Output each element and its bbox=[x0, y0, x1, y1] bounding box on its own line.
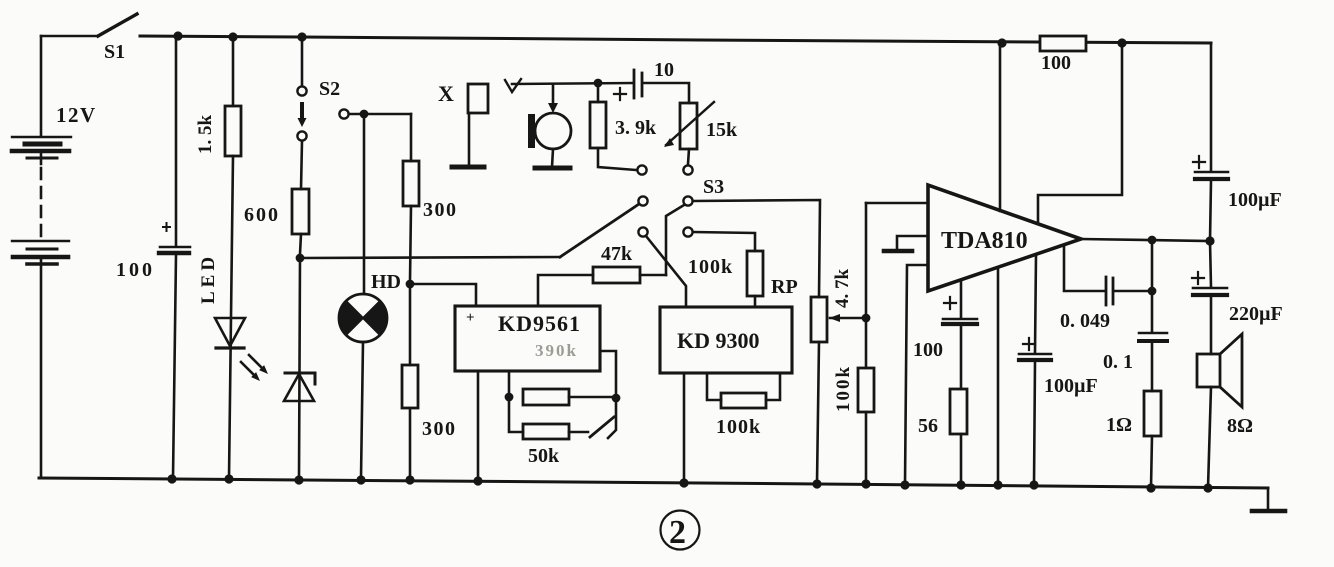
node junction bottom rail R14 bbox=[956, 480, 965, 489]
wire C2 to R6 bbox=[644, 83, 689, 103]
svg-text:100: 100 bbox=[913, 339, 943, 361]
switch S3 contact 3b bbox=[683, 227, 692, 236]
resistor R8 50k bbox=[523, 389, 569, 405]
node junction bottom rail R11 bbox=[812, 479, 821, 488]
zener diode D2 bbox=[285, 373, 315, 384]
node junction bottom rail LED bbox=[224, 474, 233, 483]
svg-text:100µF: 100µF bbox=[1044, 375, 1098, 397]
KD9561 osc pin bbox=[508, 371, 511, 397]
resistor R9 50k switched bbox=[509, 397, 523, 432]
node mic junction bbox=[594, 79, 603, 88]
TDA ground pin bbox=[997, 268, 1000, 485]
svg-text:100: 100 bbox=[116, 259, 155, 281]
node 50k right bbox=[612, 394, 621, 403]
svg-text:600: 600 bbox=[244, 204, 280, 226]
svg-text:100k: 100k bbox=[833, 365, 854, 412]
switch S1 bbox=[98, 14, 137, 36]
switch S3 contact 2b bbox=[683, 196, 692, 205]
node junction bottom rail R12 bbox=[861, 479, 870, 488]
svg-text:300: 300 bbox=[423, 199, 458, 221]
node junction bottom rail zener bbox=[294, 475, 303, 484]
resistor R10 100k loop bbox=[707, 373, 721, 400]
svg-text:47k: 47k bbox=[601, 243, 633, 265]
resistor R5 3.9k bbox=[597, 83, 600, 102]
svg-text:10: 10 bbox=[654, 59, 674, 81]
node junction bottom rail speaker bbox=[1203, 483, 1212, 492]
switch S2 bbox=[301, 37, 304, 86]
capacitor C5 0.049 bbox=[1064, 246, 1104, 291]
svg-text:1. 5k: 1. 5k bbox=[195, 115, 216, 155]
node 50k left bbox=[505, 393, 514, 402]
svg-text:100k: 100k bbox=[716, 416, 761, 438]
capacitor C4 100uF bbox=[1035, 255, 1036, 352]
svg-text:KD9561: KD9561 bbox=[498, 311, 581, 336]
potentiometer R11 4.7k bbox=[811, 297, 827, 342]
node junction top rail C1 bbox=[173, 31, 182, 40]
KD9300 ground pin bbox=[683, 373, 686, 483]
svg-text:4. 7k: 4. 7k bbox=[832, 269, 853, 309]
LED D1 bbox=[215, 318, 245, 346]
node wiper bbox=[862, 314, 871, 323]
op-amp U3 TDA810 bbox=[928, 185, 1081, 291]
resistor R3 300 bbox=[410, 114, 413, 161]
svg-text:0. 1: 0. 1 bbox=[1103, 351, 1133, 373]
wire output bbox=[1081, 239, 1210, 241]
wire bootstrap step bbox=[1038, 43, 1122, 224]
node 300 junction bbox=[406, 280, 415, 289]
speaker SP 8ohm bbox=[1197, 354, 1220, 387]
svg-text:S2: S2 bbox=[319, 78, 340, 100]
switch S3 blade2 bbox=[646, 236, 686, 307]
node junction bottom rail C4 bbox=[1029, 480, 1038, 489]
resistor R13 100 bbox=[1040, 36, 1086, 51]
svg-text:1Ω: 1Ω bbox=[1106, 414, 1132, 436]
svg-text:300: 300 bbox=[422, 418, 457, 440]
node junction bottom rail HD bbox=[356, 475, 365, 484]
node HD junction bbox=[360, 110, 369, 119]
IC U1 KD9561 bbox=[455, 306, 600, 371]
capacitor C3 100 bbox=[960, 281, 963, 317]
IC U2 KD9300 bbox=[660, 307, 792, 373]
S2 right contact bbox=[339, 109, 348, 118]
resistor R7 47k bbox=[593, 267, 640, 283]
node output bbox=[1148, 236, 1157, 245]
capacitor C6 0.1 bbox=[1151, 243, 1154, 332]
microphone BM bbox=[505, 79, 521, 92]
TDA V+ pin bbox=[999, 43, 1002, 211]
node junction bottom rail U1 bbox=[473, 476, 482, 485]
node junction bottom rail U2 bbox=[679, 478, 688, 487]
svg-text:3. 9k: 3. 9k bbox=[615, 117, 657, 139]
wire top rail left bbox=[41, 35, 98, 38]
node main selector wire bbox=[296, 254, 305, 263]
wire bottom rail bbox=[39, 478, 1268, 488]
svg-text:100µF: 100µF bbox=[1228, 189, 1282, 211]
resistor RP 100k bbox=[747, 251, 763, 296]
wire to TDA input bbox=[866, 202, 928, 205]
svg-text:50k: 50k bbox=[528, 445, 560, 467]
input tab symbol bbox=[897, 236, 928, 249]
capacitor C7 100uF bbox=[1210, 43, 1213, 170]
resistor R12 100k bbox=[865, 203, 868, 368]
capacitor C8 220uF bbox=[1210, 241, 1211, 287]
resistor R15 1ohm bbox=[1144, 391, 1161, 436]
svg-text:0. 049: 0. 049 bbox=[1060, 310, 1110, 332]
wire selector bbox=[300, 257, 560, 258]
node output right bbox=[1205, 236, 1214, 245]
figure number 2 bbox=[661, 511, 700, 550]
ground bbox=[1267, 488, 1270, 510]
svg-text:56: 56 bbox=[918, 415, 938, 437]
svg-text:RP: RP bbox=[771, 276, 798, 298]
svg-text:12V: 12V bbox=[56, 103, 97, 127]
resistor R14 56 bbox=[950, 389, 967, 434]
switch blade 50k bbox=[590, 417, 614, 437]
svg-text:S1: S1 bbox=[104, 41, 125, 63]
switch S3 contact 1b bbox=[683, 165, 692, 174]
node 100 right bbox=[1117, 38, 1126, 47]
node junction top rail R1 bbox=[228, 32, 237, 41]
svg-text:390k: 390k bbox=[535, 341, 578, 360]
resistor R6 15k variable bbox=[680, 103, 697, 149]
node junction bottom rail R15 bbox=[1146, 483, 1155, 492]
svg-text:+: + bbox=[466, 310, 475, 326]
node junction bottom rail C1 bbox=[167, 474, 176, 483]
switch S3 contact 3a bbox=[638, 227, 647, 236]
capacitor C1 100 bbox=[175, 36, 178, 245]
svg-text:2: 2 bbox=[669, 514, 686, 551]
wire S3 row2 bend bbox=[666, 205, 684, 275]
TDA pin to ground rail bbox=[905, 265, 928, 484]
LED arrows bbox=[241, 355, 262, 375]
node junction bottom rail R4 bbox=[405, 475, 414, 484]
svg-text:X: X bbox=[438, 81, 454, 106]
resistor R2 600 bbox=[292, 189, 309, 234]
buzzer HD bbox=[363, 118, 366, 294]
svg-text:100: 100 bbox=[1041, 52, 1071, 74]
svg-text:HD: HD bbox=[371, 271, 401, 293]
switch S3 contact 2a bbox=[638, 196, 647, 205]
node V+ bbox=[997, 38, 1006, 47]
svg-text:TDA810: TDA810 bbox=[941, 228, 1028, 254]
resistor R4 300 bbox=[409, 287, 412, 365]
wire to KD9561 pin bbox=[410, 284, 476, 306]
node 0.049 bbox=[1148, 287, 1157, 296]
svg-text:LED: LED bbox=[198, 253, 219, 304]
node junction bottom rail U3 gnd bbox=[993, 480, 1002, 489]
capacitor C2 10 bbox=[633, 70, 636, 98]
switch S3 contact 1a bbox=[637, 165, 646, 174]
wire S3 to 4.7k top bbox=[693, 200, 820, 297]
resistor R1 1.5k bbox=[232, 37, 235, 106]
wire node to zener bbox=[299, 258, 300, 478]
svg-text:220µF: 220µF bbox=[1229, 303, 1283, 325]
svg-text:15k: 15k bbox=[706, 119, 738, 141]
node junction top rail S2 bbox=[297, 32, 306, 41]
svg-text:8Ω: 8Ω bbox=[1227, 415, 1253, 437]
KD9561 ground pin bbox=[477, 371, 480, 481]
svg-text:100k: 100k bbox=[688, 256, 733, 278]
svg-text:KD 9300: KD 9300 bbox=[677, 328, 760, 353]
node junction bottom rail U3 pin bbox=[900, 480, 909, 489]
svg-text:S3: S3 bbox=[703, 176, 724, 198]
wire top rail bbox=[140, 36, 1211, 43]
switch S3 blade1 bbox=[560, 204, 639, 257]
battery B1 12V bbox=[40, 36, 43, 136]
wire S3 to RP bbox=[693, 232, 755, 251]
